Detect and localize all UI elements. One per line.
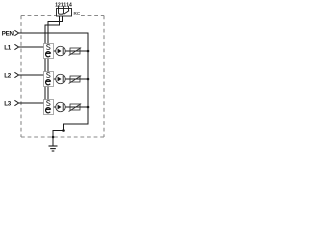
svg-text:PEN: PEN (2, 30, 15, 37)
svg-text:RC: RC (74, 11, 81, 16)
svg-text:14: 14 (66, 2, 72, 8)
svg-text:L1: L1 (4, 44, 12, 51)
svg-text:L2: L2 (4, 72, 12, 79)
svg-text:L3: L3 (4, 100, 12, 107)
